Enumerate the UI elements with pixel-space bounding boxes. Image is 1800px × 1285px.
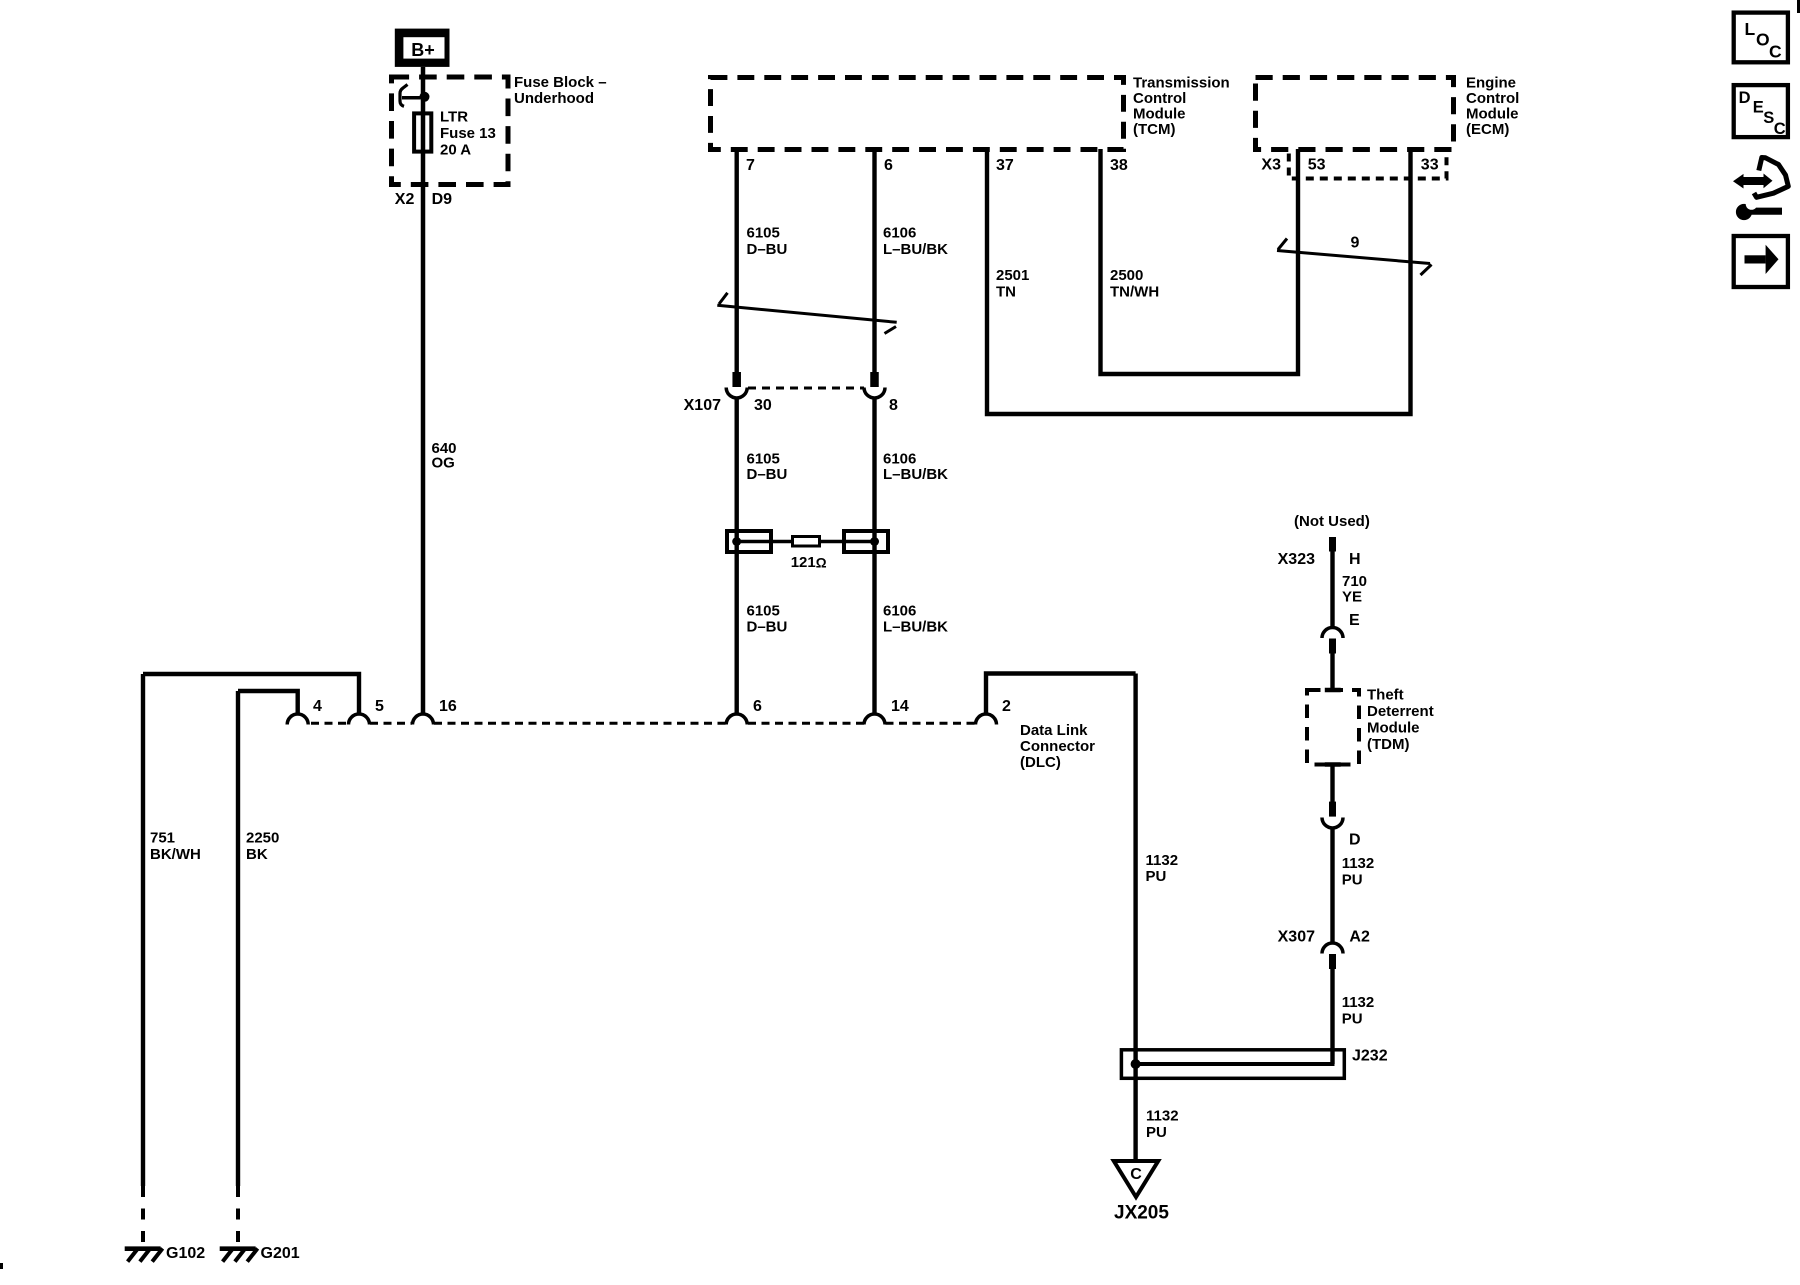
svg-text:6105: 6105 [747,450,780,467]
svg-text:X307: X307 [1278,929,1315,946]
svg-text:8: 8 [889,397,898,414]
svg-text:751: 751 [150,830,175,847]
svg-text:BK/WH: BK/WH [150,846,201,863]
svg-text:(TDM): (TDM) [1367,736,1409,753]
svg-text:E: E [1349,612,1360,629]
svg-text:PU: PU [1146,868,1167,885]
svg-text:9: 9 [1351,235,1360,252]
svg-text:OG: OG [432,454,455,471]
svg-text:Underhood: Underhood [514,90,594,107]
svg-text:2250: 2250 [246,830,279,847]
svg-text:14: 14 [891,698,909,715]
svg-text:37: 37 [996,157,1014,174]
svg-text:Control: Control [1133,90,1186,107]
svg-text:YE: YE [1342,588,1362,605]
svg-text:6106: 6106 [883,603,916,620]
svg-text:2501: 2501 [996,267,1029,284]
svg-text:TN/WH: TN/WH [1110,283,1159,300]
svg-text:33: 33 [1421,157,1439,174]
svg-text:Transmission: Transmission [1133,74,1230,91]
svg-text:6105: 6105 [747,603,780,620]
svg-text:30: 30 [754,397,772,414]
svg-text:1132: 1132 [1146,852,1179,869]
svg-text:7: 7 [746,157,755,174]
svg-text:6: 6 [753,698,762,715]
svg-text:Engine: Engine [1466,74,1516,91]
svg-text:D: D [1739,89,1751,107]
svg-text:L: L [1745,19,1756,39]
svg-text:Fuse 13: Fuse 13 [440,125,496,142]
svg-text:S: S [1763,109,1774,127]
svg-text:PU: PU [1342,1011,1363,1028]
svg-text:G102: G102 [166,1245,205,1262]
svg-text:6106: 6106 [883,225,916,242]
svg-text:C: C [1774,120,1786,138]
svg-text:D–BU: D–BU [747,466,788,483]
svg-text:Fuse Block –: Fuse Block – [514,74,607,91]
svg-text:Module: Module [1367,719,1420,736]
svg-text:D–BU: D–BU [747,241,788,258]
svg-text:X3: X3 [1261,157,1281,174]
svg-text:6: 6 [884,157,893,174]
svg-text:L–BU/BK: L–BU/BK [883,619,948,636]
svg-text:4: 4 [313,698,322,715]
svg-text:BK: BK [246,846,268,863]
svg-text:2500: 2500 [1110,267,1143,284]
svg-text:D: D [1349,832,1361,849]
svg-text:Theft: Theft [1367,686,1404,703]
svg-text:1132: 1132 [1146,1108,1179,1125]
svg-text:C: C [1130,1166,1142,1183]
svg-text:38: 38 [1110,157,1128,174]
svg-text:TN: TN [996,283,1016,300]
svg-text:(ECM): (ECM) [1466,121,1509,138]
svg-text:J232: J232 [1352,1048,1388,1065]
svg-text:(DLC): (DLC) [1020,754,1061,771]
svg-text:121Ω: 121Ω [791,554,827,571]
svg-text:B+: B+ [411,40,435,60]
svg-text:PU: PU [1146,1124,1167,1141]
svg-text:Module: Module [1133,105,1186,122]
svg-text:(Not Used): (Not Used) [1294,513,1370,530]
svg-text:Connector: Connector [1020,738,1095,755]
svg-text:H: H [1349,551,1361,568]
svg-text:X107: X107 [684,397,721,414]
svg-text:PU: PU [1342,872,1363,889]
svg-text:O: O [1756,30,1770,50]
svg-text:X2: X2 [395,191,415,208]
svg-text:X323: X323 [1278,551,1315,568]
svg-text:D–BU: D–BU [747,619,788,636]
svg-text:A2: A2 [1349,929,1370,946]
svg-text:16: 16 [439,698,457,715]
svg-text:Data Link: Data Link [1020,722,1088,739]
svg-text:6105: 6105 [747,225,780,242]
svg-text:D9: D9 [432,191,453,208]
svg-text:JX205: JX205 [1114,1202,1169,1223]
svg-text:G201: G201 [261,1245,300,1262]
svg-text:6106: 6106 [883,450,916,467]
svg-text:L–BU/BK: L–BU/BK [883,466,948,483]
svg-text:5: 5 [375,698,384,715]
svg-text:Control: Control [1466,90,1519,107]
svg-text:Deterrent: Deterrent [1367,703,1434,720]
svg-text:E: E [1753,99,1764,117]
svg-text:LTR: LTR [440,109,468,126]
svg-text:L–BU/BK: L–BU/BK [883,241,948,258]
svg-text:53: 53 [1308,157,1326,174]
svg-text:1132: 1132 [1342,994,1375,1011]
svg-text:1132: 1132 [1342,855,1375,872]
svg-text:Module: Module [1466,105,1519,122]
svg-text:(TCM): (TCM) [1133,121,1175,138]
svg-text:20 A: 20 A [440,141,471,158]
svg-text:2: 2 [1002,698,1011,715]
svg-text:C: C [1769,41,1782,61]
